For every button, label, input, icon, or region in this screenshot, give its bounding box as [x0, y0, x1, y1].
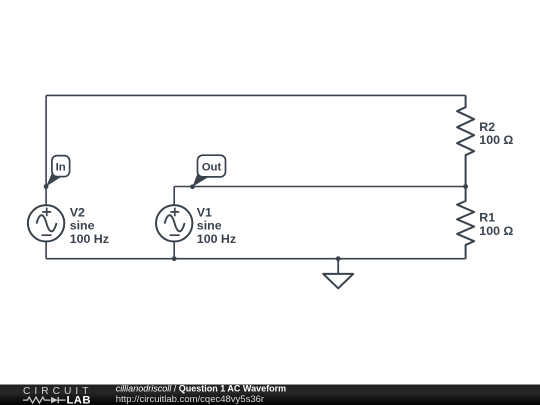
- svg-text:R1: R1: [479, 210, 495, 224]
- wire left vertical (top of V2): [45, 95, 47, 205]
- svg-text:100 Hz: 100 Hz: [70, 232, 109, 246]
- svg-text:100 Hz: 100 Hz: [197, 232, 236, 246]
- credit line 2 url: [116, 394, 264, 405]
- svg-text:http://circuitlab.com/cqec48vy: http://circuitlab.com/cqec48vy5s36r: [116, 394, 264, 405]
- ground: [323, 259, 353, 289]
- svg-text:100 Ω: 100 Ω: [479, 133, 513, 147]
- node V1 bottom junction: [172, 256, 177, 261]
- resistor R2: [457, 95, 474, 186]
- svg-text:V2: V2: [70, 205, 85, 219]
- svg-text:Out: Out: [202, 162, 222, 174]
- flag In: [46, 156, 70, 187]
- voltage source V2: [28, 205, 64, 241]
- wire left vertical (bottom of V2): [45, 241, 47, 259]
- label V2 value: [70, 205, 109, 246]
- wire bottom horizontal: [46, 258, 466, 260]
- svg-text:100 Ω: 100 Ω: [479, 224, 513, 238]
- wire top horizontal: [46, 94, 466, 96]
- label R2 value: [479, 120, 513, 147]
- logo LAB text: [67, 394, 91, 405]
- resistor R1: [457, 187, 474, 259]
- credit line 1: [116, 384, 286, 394]
- logo wire squiggle and diode: [23, 397, 66, 403]
- voltage source V1: [156, 205, 192, 241]
- flag Out: [193, 155, 226, 187]
- node ground junction: [336, 256, 341, 261]
- wire V1 bottom vertical: [173, 241, 175, 259]
- svg-text:In: In: [56, 162, 66, 174]
- label R1 value: [479, 210, 513, 238]
- wire middle horizontal (Out net): [174, 186, 465, 188]
- svg-text:LAB: LAB: [67, 394, 91, 405]
- svg-text:V1: V1: [197, 205, 212, 219]
- node Out junction: [190, 184, 195, 189]
- label V1 value: [197, 205, 236, 246]
- footer bar: [0, 385, 540, 405]
- svg-text:sine: sine: [70, 219, 95, 233]
- logo CIRCUIT text: [23, 386, 89, 397]
- svg-text:cillianodriscoll / Question 1: cillianodriscoll / Question 1 AC Wavefor…: [116, 384, 286, 394]
- node In junction: [44, 184, 49, 189]
- svg-text:R2: R2: [479, 120, 495, 134]
- node R2/R1 junction: [463, 184, 468, 189]
- wire V1 top vertical: [173, 187, 175, 206]
- svg-text:sine: sine: [197, 219, 222, 233]
